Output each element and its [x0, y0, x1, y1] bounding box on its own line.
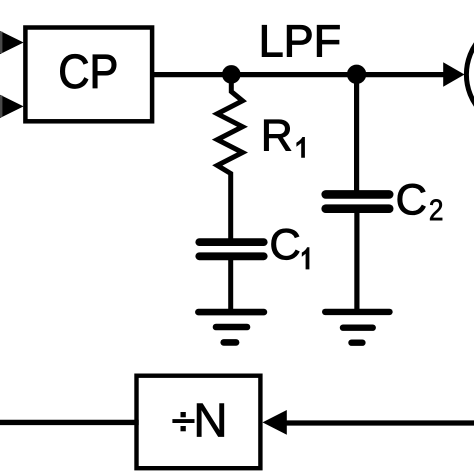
subscript 1 of R1	[296, 137, 305, 158]
input arrow (bottom, into CP)	[0, 95, 24, 118]
node junction dot 2 (C2 tap)	[347, 65, 366, 84]
arrowhead into VCO	[443, 62, 464, 87]
capacitor C1 plates	[199, 238, 263, 246]
label LPF	[262, 25, 339, 56]
node junction dot 1 (R1 tap)	[222, 65, 241, 84]
label ÷N : division sign drawn manually	[172, 419, 194, 423]
label CP	[60, 54, 116, 88]
wire: CP output to VCO (horizontal, y=74.6)	[150, 72, 444, 77]
wire: C1 bottom plate to ground	[228, 257, 233, 313]
label C1	[272, 229, 300, 260]
arrowhead into divider	[263, 410, 287, 435]
label C2	[398, 184, 426, 215]
resistor R1 (zigzag)	[217, 76, 242, 241]
wire: node 2 down to C2	[354, 76, 359, 191]
input arrow (top, into CP)	[0, 31, 24, 54]
subscript 1 of C1	[302, 247, 310, 269]
divider block ÷N	[137, 376, 261, 469]
label R1	[264, 120, 290, 151]
ground symbol (C1)	[198, 309, 264, 316]
charge pump block CP	[25, 28, 152, 122]
wire: C2 bottom plate to ground	[354, 209, 359, 312]
subscript 2 of C2	[430, 199, 442, 220]
capacitor C2 plates	[326, 190, 390, 199]
ground symbol (C2)	[325, 309, 389, 315]
wire: divider output to left edge	[0, 420, 139, 425]
wire: feedback from VCO to divider (bottom right)	[286, 420, 474, 425]
VCO circle (clipped at right edge)	[466, 21, 474, 129]
